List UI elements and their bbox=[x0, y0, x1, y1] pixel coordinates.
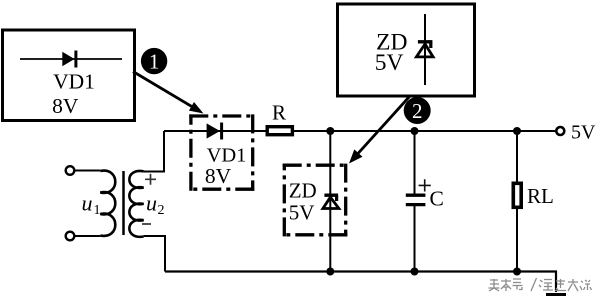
wire: load branch bottom bbox=[516, 209, 518, 272]
svg-text:1: 1 bbox=[149, 50, 160, 74]
svg-text:2: 2 bbox=[158, 203, 165, 218]
polarity + of u2 bbox=[145, 174, 156, 185]
transformer primary winding bbox=[100, 171, 115, 236]
output terminal 5V bbox=[556, 127, 564, 135]
svg-text:u: u bbox=[82, 191, 93, 216]
wire: primary top lead bbox=[75, 170, 101, 172]
wire: transformer secondary bottom to bottom rail bbox=[144, 236, 165, 272]
svg-text:C: C bbox=[430, 187, 444, 211]
wire: capacitor branch bottom bbox=[414, 205, 416, 272]
junction dot E (bottom, capacitor) bbox=[411, 268, 419, 276]
svg-text:8V: 8V bbox=[205, 164, 232, 188]
wire: zener branch bbox=[329, 131, 331, 272]
svg-text:2: 2 bbox=[412, 99, 423, 123]
junction dot B (top, capacitor) bbox=[411, 127, 419, 135]
dash-dot box VD1 bbox=[189, 114, 254, 190]
zener diode ZD symbol in callout box 2 bbox=[424, 14, 426, 85]
junction dot A (top, zener) bbox=[326, 127, 334, 135]
callout circle 1 bbox=[141, 48, 167, 74]
wire: load branch top bbox=[516, 131, 518, 182]
svg-text:1: 1 bbox=[94, 203, 101, 218]
terminal: primary top bbox=[66, 166, 75, 175]
transformer secondary winding bbox=[129, 171, 143, 237]
junction dot C (top, RL) bbox=[513, 127, 521, 135]
wire: capacitor branch top bbox=[414, 131, 416, 195]
terminal: primary bottom bbox=[66, 232, 75, 241]
svg-text:VD1: VD1 bbox=[53, 70, 95, 94]
arrow leader 2 bbox=[353, 97, 410, 160]
svg-text:5V: 5V bbox=[289, 200, 315, 224]
watermark 头条号 / 清道夫评说 bbox=[489, 278, 592, 291]
svg-text:R: R bbox=[272, 101, 286, 125]
junction dot D (bottom, zener) bbox=[326, 268, 334, 276]
diode VD1 in circuit bbox=[207, 123, 220, 138]
svg-text:5V: 5V bbox=[571, 122, 596, 144]
wire: main top rail bbox=[164, 130, 555, 132]
capacitor C plates bbox=[406, 194, 426, 197]
svg-text:u: u bbox=[146, 191, 157, 216]
callout box 2 (ZD 5V explanation) bbox=[338, 4, 475, 96]
polarity + of C bbox=[419, 179, 431, 191]
wire: bottom rail bbox=[165, 272, 556, 293]
transformer core bbox=[122, 171, 125, 235]
svg-text:ZD: ZD bbox=[289, 179, 317, 203]
wire: primary bottom lead bbox=[75, 235, 101, 237]
callout box 1 (VD1 8V explanation) bbox=[3, 30, 135, 121]
zener diode ZD in circuit bbox=[324, 193, 338, 196]
resistor R bbox=[267, 127, 292, 135]
svg-text:8V: 8V bbox=[52, 94, 79, 118]
wire: left drop to transformer secondary top bbox=[144, 131, 164, 172]
svg-text:5V: 5V bbox=[375, 50, 404, 76]
arrow leader 1 bbox=[133, 72, 199, 111]
polarity - of u2 bbox=[142, 223, 151, 225]
resistor RL bbox=[513, 183, 521, 207]
junction dot F (bottom, RL) bbox=[513, 268, 521, 276]
diode VD1 symbol in callout box 1 bbox=[20, 58, 122, 60]
dash-dot box ZD bbox=[283, 164, 348, 237]
ground bar bbox=[546, 293, 566, 296]
svg-text:RL: RL bbox=[527, 184, 554, 208]
callout circle 2 bbox=[404, 97, 431, 124]
